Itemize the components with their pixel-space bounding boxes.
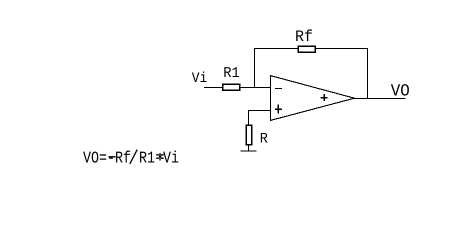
wire: non-inverting input wire xyxy=(248,110,271,112)
ground xyxy=(241,150,257,152)
wire: ground stub xyxy=(248,145,250,151)
op-amp non-inverting input plus sign xyxy=(275,104,282,113)
svg-text:R1: R1 xyxy=(223,65,240,82)
svg-text:VO=-Rf R1 Vi: VO=-Rf R1 Vi xyxy=(83,149,179,168)
op-amp U1 triangle xyxy=(271,76,355,121)
resistor R1 xyxy=(223,84,240,90)
resistor Rf xyxy=(298,46,315,52)
svg-text:VO: VO xyxy=(391,82,410,101)
wire: input wire from Vi to op-amp inverting input xyxy=(204,87,271,89)
resistor R xyxy=(246,125,252,145)
wire: feedback left vertical drop to inverting input xyxy=(254,48,256,88)
formula minus widener xyxy=(108,156,115,158)
svg-text:Vi: Vi xyxy=(192,71,208,87)
wire: output wire xyxy=(354,98,405,100)
svg-text:Rf: Rf xyxy=(295,28,313,46)
svg-text:R: R xyxy=(260,131,268,147)
op-amp inverting input minus sign xyxy=(275,88,282,90)
wire: top feedback wire xyxy=(254,48,368,50)
wire: vertical wire down to resistor R xyxy=(248,111,250,126)
op-amp output plus sign xyxy=(321,94,328,101)
formula slash xyxy=(130,150,137,164)
formula asterisk xyxy=(156,153,163,161)
wire: feedback right vertical from top wire to output xyxy=(367,48,369,99)
